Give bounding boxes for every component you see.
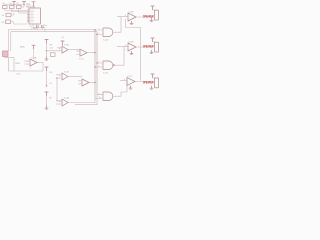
wire VCC2 to R3 (21, 6, 24, 7)
wire bus upper (9, 30, 96, 52)
supply VCC2 (22, 2, 26, 6)
svg-text:R1: R1 (3, 3, 5, 5)
wire cross link (126, 19, 141, 81)
capacitor C2 (42, 25, 44, 28)
op-amp D3 triangle (127, 78, 135, 86)
gate G3 (103, 92, 113, 101)
wire bus lower (11, 32, 97, 51)
svg-text:SPEAKER: SPEAKER (143, 45, 154, 49)
ground row A (45, 57, 49, 61)
supply VCC ch1 (151, 6, 155, 10)
supply VCC A2 (61, 41, 65, 45)
wire bus vertical right (96, 32, 98, 95)
wire S2 to IC (11, 22, 28, 24)
op-amp A2 triangle (80, 49, 87, 56)
wire R1 to IC pin (5, 9, 27, 11)
wire VCC osc down (33, 49, 35, 59)
supply VCC row A (45, 40, 49, 44)
wire osc feedback (9, 63, 44, 72)
junction node rowA feed (46, 50, 47, 51)
ground D2 (130, 51, 134, 55)
wire C1 inputs (56, 101, 62, 104)
wire R3 to IC pin (19, 9, 27, 14)
IC U1 body (29, 8, 41, 24)
wire G2 out (115, 47, 124, 66)
resistor R5 (51, 53, 56, 57)
wire crystal bottom (5, 57, 14, 72)
buzzer B1 body (155, 10, 159, 20)
wire B2 inputs (78, 81, 82, 84)
svg-text:IC2B: IC2B (103, 73, 108, 75)
wire S1 to IC (11, 13, 14, 15)
resistor R2 (10, 6, 15, 9)
supply VCC row B (45, 67, 49, 71)
wire A1 inputs (47, 48, 63, 51)
wire row B riser (57, 78, 62, 101)
svg-text:IC4A: IC4A (64, 97, 69, 100)
wire bus vertical left (94, 30, 96, 99)
wire G3 out (113, 81, 127, 97)
supply VCC ch2 (151, 38, 155, 42)
op-amp D1 triangle (128, 13, 136, 21)
junction node gate2 pin (94, 66, 95, 67)
supply VCC osc (32, 45, 36, 49)
svg-text:IC3B: IC3B (64, 45, 69, 47)
svg-text:IC3D: IC3D (64, 72, 69, 74)
ground row C (45, 106, 49, 110)
svg-text:R3: R3 (17, 3, 19, 5)
junction node bus1-gate1 (94, 29, 95, 30)
relay K2 body (155, 78, 159, 88)
wire VCC ch3 to box (153, 77, 157, 79)
junction node gate1 pin2 (96, 34, 97, 35)
wire VCC ch1 to box (153, 9, 157, 12)
svg-text:AIN0: AIN0 (20, 46, 26, 49)
svg-text:IC2A: IC2A (103, 39, 108, 42)
wire G1 out (113, 17, 121, 33)
svg-text:SPEAKER: SPEAKER (143, 81, 154, 85)
wire A2 inputs (76, 51, 80, 54)
junction node B2 out (94, 82, 95, 83)
wire VCC B down (46, 71, 48, 86)
supply VCC1 (12, 2, 16, 6)
wire B1 inputs (56, 75, 62, 78)
wire VCC C down (46, 96, 48, 106)
op-amp B2 triangle (82, 79, 89, 86)
svg-text:SPEAKER: SPEAKER (143, 15, 154, 19)
supply VCC row C (45, 92, 49, 96)
junction node gate2 pin1 (96, 62, 97, 63)
svg-text:IC5B: IC5B (129, 42, 134, 44)
op-amp D2 triangle (128, 43, 136, 51)
svg-text:2: 2 (99, 33, 100, 35)
wire D3 out (135, 81, 153, 83)
svg-text:R2: R2 (10, 3, 12, 5)
crystal Q1 (3, 51, 9, 57)
wire B2 out (89, 82, 95, 84)
op-amp U2 triangle (30, 59, 37, 66)
svg-text:IC3C: IC3C (79, 59, 84, 61)
resistor R3 (17, 6, 22, 9)
wire D1 out (136, 16, 153, 18)
svg-text:10: 10 (99, 97, 101, 99)
wire D1 in (117, 16, 128, 18)
svg-text:XTAL1: XTAL1 (31, 27, 38, 30)
supply VCC ch3 (151, 74, 155, 78)
svg-text:OSC: OSC (16, 74, 21, 76)
op-amp B1 triangle (62, 73, 68, 80)
ground D3 (129, 86, 133, 90)
relay K1 body (155, 42, 159, 52)
resistor R1 (3, 6, 8, 9)
svg-text:IC5C: IC5C (128, 76, 133, 78)
VCC rail top-left (3, 4, 25, 6)
wire VCC ch2 to box (153, 41, 157, 43)
ground ch3 (150, 86, 154, 90)
wire U2 inputs (24, 61, 30, 64)
ground ch1 (150, 18, 154, 22)
svg-text:MEGA8: MEGA8 (26, 5, 36, 9)
supply VCC IC (32, 2, 36, 6)
wire C1 out (68, 99, 95, 103)
op-amp C1 triangle (62, 99, 68, 106)
svg-text:9: 9 (99, 93, 100, 95)
capacitor C1 (37, 25, 39, 28)
ground ch2 (150, 50, 154, 54)
wire D2 out (136, 46, 153, 48)
junction node A2 out (94, 52, 95, 53)
wire osc vertical (8, 58, 10, 71)
wire A1 out (68, 49, 80, 51)
wire B1 out (68, 76, 82, 78)
switch S1 (6, 13, 11, 17)
wire A2 out (87, 52, 95, 54)
op-amp A1 triangle (62, 46, 68, 53)
IC pin comb (27, 10, 29, 22)
gate G3 pins (95, 95, 103, 99)
svg-text:GND: GND (15, 63, 20, 65)
wire U2 output (37, 62, 43, 64)
switch S2 (6, 20, 11, 24)
IC pin names (30, 10, 35, 22)
wire D2 in (117, 46, 128, 48)
junction node riser B (56, 77, 57, 78)
wire R2 to IC pin (12, 9, 27, 12)
gate G2 pins (95, 63, 103, 67)
gate G1 pins (95, 30, 103, 35)
wire VCC A2 down (62, 45, 64, 46)
svg-text:1: 1 (99, 29, 100, 31)
wire D3 in (120, 80, 127, 82)
ground D1 (130, 21, 134, 25)
gate G2 bubble (113, 64, 115, 66)
svg-text:5: 5 (99, 66, 100, 68)
svg-text:IC3A: IC3A (32, 57, 37, 60)
wire VCC A down (46, 44, 48, 57)
wire C extra (75, 95, 97, 105)
svg-text:4: 4 (99, 62, 100, 64)
end node row B (46, 85, 48, 87)
wire VCC to IC (33, 6, 35, 8)
wire IC bottom (33, 24, 45, 32)
svg-text:IC5A: IC5A (129, 11, 134, 14)
gate G2 (103, 61, 113, 70)
gate G1 (103, 28, 113, 37)
